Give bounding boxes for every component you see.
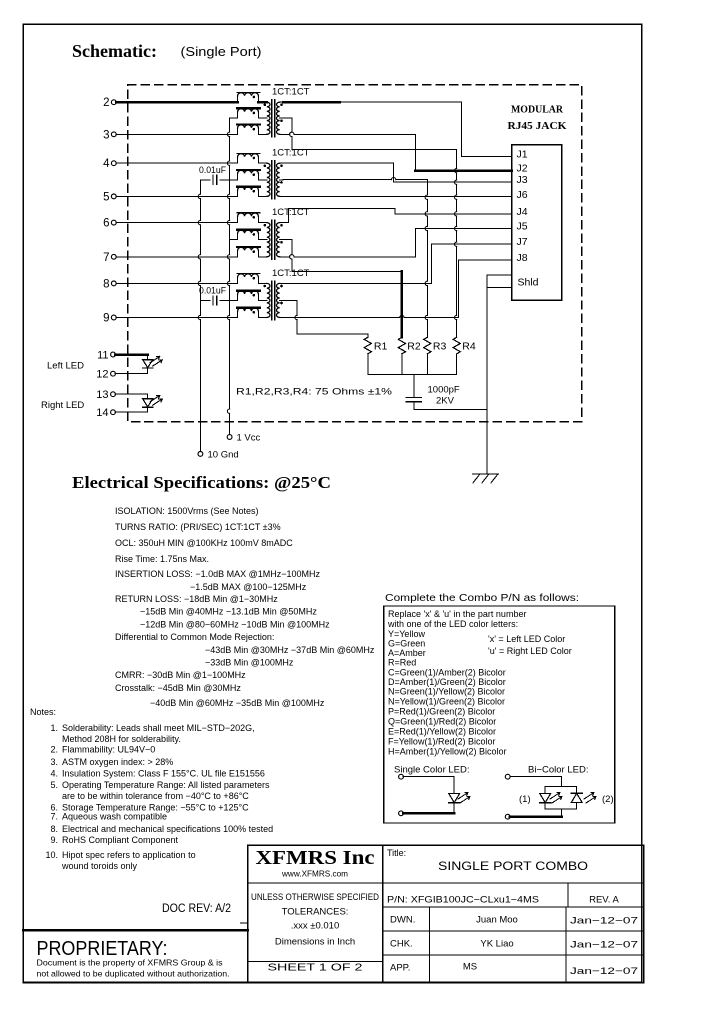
svg-text:14: 14 — [96, 407, 108, 419]
combo box — [384, 606, 615, 823]
svg-text:not allowed to be duplicated w: not allowed to be duplicated without aut… — [37, 969, 230, 979]
svg-text:R3: R3 — [433, 341, 447, 353]
svg-text:Hipot spec refers to applicati: Hipot spec refers to application to — [62, 850, 196, 860]
Gnd bus — [199, 180, 201, 194]
title block outer box — [248, 845, 644, 983]
svg-text:Title:: Title: — [387, 848, 406, 858]
svg-text:3.: 3. — [50, 757, 58, 767]
wire pin 8 — [116, 282, 238, 284]
wire pin 3 — [116, 133, 238, 135]
wire T3 secondary bottom to J5 — [283, 256, 290, 258]
proprietary box — [23, 930, 247, 982]
wire tap T4 to bus — [230, 299, 238, 301]
transformer T4 core — [271, 281, 273, 320]
wire tap T2 to bus — [230, 179, 238, 181]
svg-text:H=Amber(1)/Yellow(2) Bicolor: H=Amber(1)/Yellow(2) Bicolor — [388, 747, 506, 757]
svg-text:R4: R4 — [462, 341, 476, 353]
svg-text:E=Red(1)/Yellow(2) Bicolor: E=Red(1)/Yellow(2) Bicolor — [388, 727, 496, 737]
resistor R4 — [453, 337, 460, 353]
transformer T2 choke winding b (center) — [237, 170, 260, 180]
wire pin 9 — [116, 317, 238, 319]
svg-text:SHEET 1 OF 2: SHEET 1 OF 2 — [268, 962, 363, 974]
transformer T4 primary winding — [267, 283, 270, 317]
svg-text:Flammability: UL94V−0: Flammability: UL94V−0 — [62, 745, 155, 755]
transformer T1 choke winding a — [237, 92, 260, 102]
wire T4 choke to primary — [258, 282, 266, 284]
svg-text:R1: R1 — [374, 341, 388, 353]
transformer T3 secondary winding — [277, 223, 280, 257]
wire T3 choke to primary — [258, 222, 266, 224]
svg-text:5: 5 — [103, 191, 109, 203]
capacitor 1000pF 2KV — [413, 374, 415, 397]
transformer T3 core — [271, 220, 273, 259]
wire T1 secondary bottom to J2 — [283, 133, 290, 135]
svg-text:CHK.: CHK. — [390, 939, 413, 950]
transformer T4 secondary winding — [277, 283, 280, 317]
svg-text:(Single Port): (Single Port) — [181, 45, 262, 59]
wire T2 secondary bottom to J6 — [283, 195, 512, 197]
svg-text:Juan Moo: Juan Moo — [476, 915, 518, 926]
transformer T2 phase dots — [264, 165, 267, 168]
svg-text:8.: 8. — [50, 824, 58, 834]
wire T1 secondary tap to R4 — [283, 117, 292, 119]
svg-text:1 Vcc: 1 Vcc — [237, 433, 261, 444]
svg-text:1CT:1CT: 1CT:1CT — [272, 87, 310, 98]
chassis ground symbol — [472, 473, 498, 475]
svg-text:J4: J4 — [517, 206, 528, 218]
svg-text:Q=Green(1)/Red(2) Bicolor: Q=Green(1)/Red(2) Bicolor — [388, 717, 496, 727]
svg-text:10.: 10. — [45, 850, 58, 860]
svg-text:Jan−12−07: Jan−12−07 — [570, 940, 638, 951]
svg-text:MODULAR: MODULAR — [511, 104, 564, 116]
Vcc center-tap bus — [229, 118, 231, 132]
svg-text:J2: J2 — [517, 163, 528, 175]
svg-text:11: 11 — [97, 350, 108, 362]
svg-text:7.: 7. — [50, 812, 58, 822]
svg-text:4: 4 — [103, 158, 110, 170]
wire pin 11 — [115, 353, 148, 356]
svg-text:Electrical and mechanical spec: Electrical and mechanical specifications… — [62, 824, 273, 834]
svg-text:Notes:: Notes: — [30, 707, 56, 717]
svg-text:XFMRS Inc: XFMRS Inc — [256, 847, 375, 869]
wire Shld to ground — [487, 274, 512, 276]
transformer T1 choke winding b (center) — [237, 108, 260, 118]
transformer T4 secondary stubs — [280, 282, 283, 284]
resistor R2 — [398, 337, 405, 353]
svg-text:1CT:1CT: 1CT:1CT — [272, 268, 310, 279]
wire pin 12 — [115, 373, 148, 375]
svg-text:R2: R2 — [407, 341, 421, 353]
svg-text:TURNS RATIO: (PRI/SEC) 1CT:1: TURNS RATIO: (PRI/SEC) 1CT:1CT ±3% — [115, 522, 281, 532]
svg-text:G=Green: G=Green — [388, 639, 425, 649]
svg-text:YK Liao: YK Liao — [480, 939, 513, 950]
svg-text:Document is the property of XF: Document is the property of XFMRS Group … — [37, 958, 223, 968]
wire tap T3 to bus — [230, 239, 238, 241]
wire pin 14 — [115, 411, 148, 413]
svg-text:APP.: APP. — [390, 963, 410, 974]
svg-text:−43dB Min @30MHz −37dB Min: −43dB Min @30MHz −37dB Min @60MHz — [205, 645, 375, 655]
svg-text:J1: J1 — [517, 149, 528, 161]
svg-text:Replace 'x' & 'u' in the part: Replace 'x' & 'u' in the part number — [388, 609, 526, 619]
svg-text:Shld: Shld — [518, 276, 539, 288]
svg-text:Jan−12−07: Jan−12−07 — [570, 916, 638, 927]
svg-text:2: 2 — [103, 97, 109, 109]
svg-text:Bi−Color LED:: Bi−Color LED: — [528, 765, 588, 776]
svg-text:UNLESS OTHERWISE SPECIFIED: UNLESS OTHERWISE SPECIFIED — [251, 892, 379, 902]
svg-text:Solderability: Leads shall mee: Solderability: Leads shall meet MIL−STD−… — [62, 723, 255, 733]
wire pin 2 — [116, 101, 238, 104]
svg-text:Rise Time: 1.75ns Max.: Rise Time: 1.75ns Max. — [115, 554, 209, 564]
svg-text:MS: MS — [463, 962, 477, 973]
wire pin 5 — [116, 195, 238, 197]
svg-text:13: 13 — [96, 389, 108, 401]
LED left (D1) — [147, 355, 149, 374]
svg-text:Single Color LED:: Single Color LED: — [394, 765, 470, 776]
wire T4 secondary tap to R1 — [283, 299, 297, 301]
transformer T3 primary winding — [267, 223, 270, 257]
svg-text:10 Gnd: 10 Gnd — [208, 450, 239, 461]
transformer T3 secondary stubs — [280, 222, 283, 224]
svg-text:DOC REV: A/2: DOC REV: A/2 — [162, 903, 231, 915]
svg-text:P/N: XFGIB100JC−CLxu1−4MS: P/N: XFGIB100JC−CLxu1−4MS — [387, 895, 539, 906]
svg-text:CMRR: −30dB Min @1−100MHz: CMRR: −30dB Min @1−100MHz — [115, 670, 246, 680]
svg-text:2.: 2. — [50, 745, 58, 755]
svg-text:Jan−12−07: Jan−12−07 — [570, 966, 638, 977]
svg-text:.xxx ±0.010: .xxx ±0.010 — [291, 921, 340, 932]
svg-text:R=Red: R=Red — [388, 658, 416, 668]
svg-text:9: 9 — [103, 313, 109, 325]
svg-text:wound toroids only: wound toroids only — [61, 861, 138, 871]
svg-text:9.: 9. — [50, 835, 58, 845]
svg-text:Method 208H for solderability.: Method 208H for solderability. — [62, 734, 181, 744]
svg-text:'u' = Right LED Color: 'u' = Right LED Color — [488, 646, 572, 656]
transformer T4 choke winding b (center) — [237, 291, 260, 301]
pin 1 Vcc — [227, 435, 232, 440]
svg-text:2KV: 2KV — [436, 396, 455, 407]
svg-text:Operating Temperature Range: A: Operating Temperature Range: All listed … — [62, 780, 270, 790]
svg-text:0.01uF: 0.01uF — [199, 165, 226, 175]
svg-text:'x' = Left LED Color: 'x' = Left LED Color — [488, 634, 565, 644]
title block dividers — [382, 845, 384, 983]
svg-text:J6: J6 — [517, 189, 528, 201]
svg-text:Schematic:: Schematic: — [72, 41, 157, 61]
svg-text:OCL: 350uH MIN @100KHz 100: OCL: 350uH MIN @100KHz 100mV 8mADC — [115, 538, 293, 548]
svg-text:0.01uF: 0.01uF — [199, 285, 226, 295]
frame tick — [241, 922, 248, 924]
transformer T4 phase dots — [264, 285, 267, 288]
wire T1 secondary top to J1 — [283, 101, 340, 104]
wire T2 choke to primary — [258, 162, 266, 164]
transformer T2 primary winding — [267, 163, 270, 196]
svg-text:A=Amber: A=Amber — [388, 648, 426, 658]
capacitor C2 0.01uF — [200, 299, 210, 301]
svg-text:J7: J7 — [517, 236, 528, 248]
wire pin 4 — [116, 162, 238, 164]
svg-text:−33dB Min @100MHz: −33dB Min @100MHz — [205, 658, 294, 668]
wire tap T1 to bus — [230, 117, 238, 119]
resistor bottom bus — [368, 373, 457, 375]
svg-text:RETURN LOSS: −18dB Min @1−3: RETURN LOSS: −18dB Min @1−30MHz — [115, 594, 278, 604]
svg-text:INSERTION LOSS: −1.0dB MAX: INSERTION LOSS: −1.0dB MAX @1MHz−100MHz — [115, 569, 321, 579]
svg-text:Y=Yellow: Y=Yellow — [388, 629, 425, 639]
wire T1 choke to primary — [258, 101, 266, 104]
svg-text:J5: J5 — [517, 221, 528, 233]
svg-text:TOLERANCES:: TOLERANCES: — [282, 907, 349, 918]
single color LED diagram — [399, 774, 404, 779]
resistor R3 — [424, 337, 431, 353]
svg-text:−12dB Min @80−60MHz −10dB: −12dB Min @80−60MHz −10dB Min @100MHz — [140, 620, 330, 630]
transformer T4 choke winding a — [237, 274, 260, 284]
svg-text:J3: J3 — [517, 174, 528, 186]
dashed module boundary box — [128, 85, 582, 422]
svg-text:C=Green(1)/Amber(2) Bicolor: C=Green(1)/Amber(2) Bicolor — [388, 668, 506, 678]
svg-text:1.: 1. — [50, 723, 58, 733]
svg-text:Insulation System: Class F 155: Insulation System: Class F 155°C. UL fil… — [62, 769, 265, 779]
wire T2 secondary tap to R3 — [283, 179, 391, 181]
svg-text:Crosstalk: −45dB Min @30MHz: Crosstalk: −45dB Min @30MHz — [115, 683, 241, 693]
svg-text:8: 8 — [103, 278, 109, 290]
svg-text:3: 3 — [103, 129, 109, 141]
transformer T2 core — [271, 161, 273, 199]
svg-text:−15dB Min @40MHz −13.1dB M: −15dB Min @40MHz −13.1dB Min @50MHz — [140, 607, 317, 617]
transformer T3 choke winding c — [237, 247, 260, 257]
svg-text:SINGLE PORT COMBO: SINGLE PORT COMBO — [438, 859, 588, 873]
svg-text:with one of the LED color lett: with one of the LED color letters: — [387, 619, 518, 629]
svg-text:D=Amber(1)/Green(2) Bicolor: D=Amber(1)/Green(2) Bicolor — [388, 677, 506, 687]
transformer T2 choke winding a — [237, 153, 260, 163]
svg-text:are to be within tolerance fro: are to be within tolerance from −40°C to… — [62, 791, 249, 801]
svg-text:Differential to Common Mode Re: Differential to Common Mode Rejection: — [115, 632, 274, 642]
svg-text:P=Red(1)/Green(2) Bicolor: P=Red(1)/Green(2) Bicolor — [388, 707, 495, 717]
wire T4 secondary top to J7 — [283, 282, 432, 284]
svg-text:R1,R2,R3,R4: 75 Ohms ±1%: R1,R2,R3,R4: 75 Ohms ±1% — [236, 387, 393, 398]
capacitor C1 0.01uF — [200, 179, 210, 181]
wire pin 7 — [116, 256, 238, 258]
svg-text:F=Yellow(1)/Red(2) Bicolor: F=Yellow(1)/Red(2) Bicolor — [388, 737, 495, 747]
bi-color LED diagram — [505, 774, 510, 779]
wire T3 secondary top to J4 — [283, 222, 289, 224]
svg-text:4.: 4. — [50, 769, 58, 779]
pin 10 Gnd — [198, 452, 203, 457]
wire pin 6 — [116, 222, 238, 224]
svg-text:ASTM oxygen index: > 28%: ASTM oxygen index: > 28% — [62, 757, 173, 767]
svg-text:−1.5dB MAX @100−125MHz: −1.5dB MAX @100−125MHz — [190, 582, 307, 592]
svg-text:(1): (1) — [519, 794, 531, 805]
transformer T1 secondary winding — [277, 102, 280, 134]
resistor R1 — [364, 337, 371, 353]
svg-text:www.XFMRS.com: www.XFMRS.com — [281, 869, 348, 879]
svg-text:7: 7 — [103, 252, 109, 264]
transformer T2 secondary stubs — [280, 162, 283, 164]
transformer T2 secondary winding — [277, 163, 280, 196]
svg-text:Electrical Specifications: @: Electrical Specifications: @25°C — [72, 473, 331, 492]
svg-text:J8: J8 — [517, 252, 528, 264]
transformer T1 primary winding — [267, 102, 270, 134]
svg-text:12: 12 — [96, 369, 108, 381]
svg-text:Left LED: Left LED — [47, 361, 84, 372]
RJ45 jack box — [512, 145, 562, 301]
svg-text:Dimensions in Inch: Dimensions in Inch — [275, 937, 355, 948]
transformer T1 secondary stubs — [280, 101, 283, 103]
svg-text:N=Yellow(1)/Green(2) Bicolor: N=Yellow(1)/Green(2) Bicolor — [388, 697, 505, 707]
svg-text:RJ45 JACK: RJ45 JACK — [508, 120, 567, 132]
transformer T2 choke winding c — [237, 187, 260, 197]
transformer T3 choke winding a — [237, 213, 260, 223]
LED right (D2) — [147, 394, 149, 412]
svg-text:−40dB Min @60MHz −35dB Mi: −40dB Min @60MHz −35dB Min @100MHz — [150, 698, 325, 708]
svg-text:REV. A: REV. A — [589, 895, 619, 906]
wire T2 secondary top to J3 — [283, 162, 394, 164]
transformer T1 choke winding c — [237, 125, 260, 135]
svg-text:Complete the Combo P/N as: Complete the Combo P/N as follows: — [385, 592, 579, 604]
transformer T3 choke winding b (center) — [237, 230, 260, 240]
svg-text:1000pF: 1000pF — [428, 385, 460, 396]
wire T4 secondary bottom to J8 — [283, 317, 400, 319]
transformer T4 choke winding c — [237, 308, 260, 318]
wire T3 secondary tap to R2 — [283, 239, 292, 241]
wire pin 13 — [115, 393, 148, 395]
svg-text:ISOLATION: 1500Vrms (See Not: ISOLATION: 1500Vrms (See Notes) — [115, 506, 259, 516]
transformer T1 core — [271, 100, 273, 137]
transformer T3 phase dots — [264, 224, 267, 227]
svg-text:Aqueous wash compatible: Aqueous wash compatible — [62, 812, 167, 822]
svg-text:5.: 5. — [50, 780, 58, 790]
svg-text:6: 6 — [103, 218, 109, 230]
svg-text:DWN.: DWN. — [390, 915, 415, 926]
svg-text:(2): (2) — [602, 794, 614, 805]
svg-text:RoHS Compliant Component: RoHS Compliant Component — [62, 835, 179, 845]
svg-text:Right LED: Right LED — [41, 400, 84, 411]
transformer T1 phase dots — [264, 104, 267, 107]
svg-text:N=Green(1)/Yellow(2) Bicolor: N=Green(1)/Yellow(2) Bicolor — [388, 687, 505, 697]
